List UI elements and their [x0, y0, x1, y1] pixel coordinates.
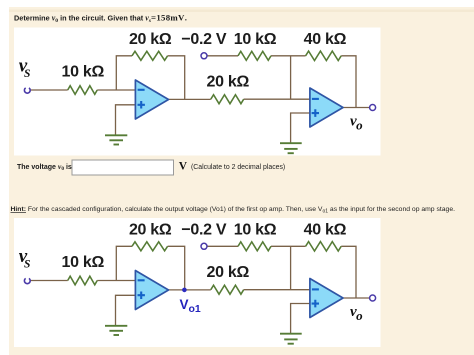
wire W9a: node Ca down to node Ba: [290, 56, 292, 99]
wire W12b: U1b noninverting input to ground G1b: [116, 295, 136, 325]
wire W7a: terminal -0.2V to resistor R4a: [207, 55, 238, 57]
svg-text:(Calculate to 2 decimal places: (Calculate to 2 decimal places): [191, 164, 285, 171]
op-amp U2b: [310, 279, 343, 318]
resistor R3b 20k interstage: [211, 285, 244, 294]
terminal -0.2V source b: [201, 243, 207, 249]
wire W11a: U2a output to terminal vo: [343, 107, 369, 109]
wire W8b: resistor R4b through node Cb to resistor R5b: [271, 245, 306, 247]
resistor R1a 10k input: [68, 86, 98, 95]
ground G2a: [280, 143, 302, 153]
wire W10b: resistor R5b to corner, down to U2b output: [341, 246, 356, 298]
svg-text:10 kΩ: 10 kΩ: [234, 222, 277, 239]
circuit panel 1 white canvas: [14, 28, 381, 156]
wire W8a: resistor R4a through node Ca to resistor R5a: [271, 55, 306, 57]
resistor R2a 20k feedback of U1a: [132, 51, 168, 60]
wire W4b: feedback rail right segment down to U1b output: [168, 246, 185, 290]
svg-text:20 kΩ: 20 kΩ: [207, 264, 250, 281]
resistor R1b 10k input: [68, 276, 98, 285]
terminal -0.2V source a: [201, 53, 207, 59]
op-amp U1b: [135, 271, 168, 310]
op-amp U1a: [135, 80, 168, 119]
svg-text:Determine v0 in the circuit. G: Determine v0 in the circuit. Given that …: [14, 13, 187, 24]
resistor R4a 10k from -0.2V source: [238, 51, 271, 60]
terminal Vs source a (open at top): [24, 88, 30, 93]
resistor R5a 40k feedback of U2a: [306, 51, 342, 60]
ground G1b: [105, 326, 127, 335]
terminal Vs source b (open at top): [24, 278, 30, 283]
node Vo1 junction dot: [182, 288, 187, 293]
wire W6a: resistor R3a to op-amp U2a inverting input, node Ba: [244, 98, 310, 100]
wire W2a: resistor R1a to op-amp U1a inverting input, node Aa: [97, 89, 135, 91]
resistor R5b 40k feedback of U2b: [306, 242, 342, 251]
wire W9b: node Cb down to node Bb: [290, 246, 292, 289]
answer input box: [72, 160, 174, 175]
wire W1a: source Vs to resistor R1a: [30, 89, 68, 91]
circuit panel 2 white canvas: [14, 218, 381, 347]
wire W3b: node Ab up to feedback rail: [116, 246, 132, 280]
subtle header rule: [9, 10, 474, 13]
svg-text:40 kΩ: 40 kΩ: [304, 31, 347, 48]
resistor R3a 20k interstage: [211, 95, 244, 104]
terminal vo output a: [370, 105, 376, 111]
svg-text:V: V: [179, 160, 188, 172]
svg-text:−0.2 V: −0.2 V: [181, 31, 227, 48]
resistor R2b 20k feedback of U1b: [132, 242, 168, 251]
op-amp U2a: [310, 88, 343, 127]
svg-text:20 kΩ: 20 kΩ: [129, 31, 172, 48]
wire W4a: feedback rail right segment down to U1a output: [168, 56, 185, 100]
svg-text:20 kΩ: 20 kΩ: [207, 73, 250, 90]
wire W5a: U1a output to resistor R3a: [168, 98, 211, 100]
wire W10a: resistor R5a to corner, down to U2a output: [341, 56, 356, 108]
svg-text:10 kΩ: 10 kΩ: [234, 31, 277, 48]
svg-text:−0.2 V: −0.2 V: [181, 222, 227, 239]
svg-text:10 kΩ: 10 kΩ: [62, 63, 105, 80]
resistor R4b 10k from -0.2V source: [238, 242, 271, 251]
wire W12a: U1a noninverting input to ground G1a: [116, 105, 136, 135]
wire W13b: U2b noninverting input to ground G2b: [291, 304, 310, 334]
wire W7b: terminal -0.2V to resistor R4b: [207, 245, 238, 247]
wire W5b: U1b output to resistor R3b: [168, 289, 211, 291]
svg-text:10 kΩ: 10 kΩ: [62, 254, 105, 271]
svg-text:The voltage v0 is: The voltage v0 is: [17, 162, 72, 172]
ground G2b: [280, 334, 302, 344]
wire W11b: U2b output to terminal vo: [343, 297, 369, 299]
wire W1b: source Vs to resistor R1b: [30, 280, 68, 282]
svg-text:40 kΩ: 40 kΩ: [304, 222, 347, 239]
ground G1a: [105, 135, 127, 144]
svg-text:20 kΩ: 20 kΩ: [129, 222, 172, 239]
wire W2b: resistor R1b to op-amp U1b inverting input, node Ab: [97, 280, 135, 282]
wire W6b: resistor R3b to op-amp U2b inverting input, node Bb: [244, 289, 310, 291]
terminal vo output b: [370, 295, 376, 301]
wire W13a: U2a noninverting input to ground G2a: [291, 113, 310, 143]
wire W3a: node Aa up to feedback rail: [116, 56, 132, 90]
